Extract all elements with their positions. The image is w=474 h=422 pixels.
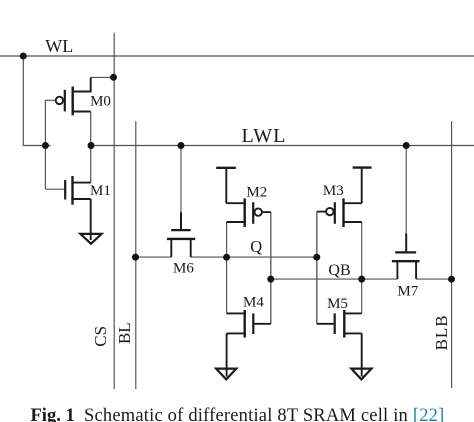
transistor M5 (NMOS) <box>317 310 362 377</box>
svg-text:M6: M6 <box>173 260 194 276</box>
node QB gate tap <box>267 276 274 283</box>
wire M5 drain to QB <box>361 279 363 313</box>
node QB junction <box>358 276 365 283</box>
transistor M4 (NMOS) <box>227 310 271 377</box>
wire WL branch to gates of M0/M1 <box>23 56 50 146</box>
node WL tap <box>20 53 27 60</box>
wire M1 drain up to LWL <box>90 146 92 183</box>
node Q on BL <box>132 254 139 261</box>
svg-text:QB: QB <box>328 262 350 279</box>
transistor M2 (PMOS) <box>216 168 271 227</box>
wire M3 drain to QB <box>361 222 363 279</box>
node M6 gate on LWL <box>178 142 185 149</box>
wire node QB horizontal <box>271 278 452 280</box>
ground below M4 <box>216 369 236 380</box>
transistor M3 (PMOS) <box>317 168 372 227</box>
svg-text:M2: M2 <box>246 184 267 200</box>
wire BL bit line vertical <box>135 121 137 389</box>
node Q gate tap <box>313 254 320 261</box>
wire M6 gate from LWL <box>180 146 182 213</box>
wire LWL horizontal rail <box>91 145 474 147</box>
wire M0 source down to LWL <box>90 112 92 146</box>
wire CS bit line vertical <box>113 33 115 389</box>
transistor M1 (NMOS) <box>65 176 91 240</box>
wire M2 drain to Q <box>226 222 228 257</box>
svg-text:CS: CS <box>91 326 110 347</box>
node M7 gate on LWL <box>403 142 410 149</box>
svg-text:M3: M3 <box>323 183 344 199</box>
svg-text:BL: BL <box>115 322 134 344</box>
svg-text:M0: M0 <box>90 93 111 109</box>
svg-text:M7: M7 <box>397 284 418 300</box>
transistor M7 (NMOS pass, gate on top) <box>392 234 420 280</box>
svg-text:M4: M4 <box>243 295 264 311</box>
node LWL left end <box>88 142 95 149</box>
ground below M5 <box>351 369 371 380</box>
wire M2 gate cross-couple vertical to QB and M4 gate <box>270 212 272 324</box>
wire WL horizontal rail <box>0 55 474 57</box>
wire node Q horizontal <box>136 256 317 258</box>
node gate junction <box>42 142 49 149</box>
transistor M0 (PMOS) <box>56 77 91 115</box>
svg-text:Fig. 1Schematic of differentia: Fig. 1Schematic of differential 8T SRAM … <box>31 406 445 422</box>
wire M3 gate cross-couple vertical to Q and M5 gate <box>316 212 318 324</box>
wire M7 gate from LWL <box>405 146 407 234</box>
svg-text:BLB: BLB <box>432 314 451 350</box>
wire M0 drain to CS <box>91 76 115 78</box>
node Q junction <box>223 254 230 261</box>
svg-text:LWL: LWL <box>242 125 287 147</box>
node M0 drain on CS <box>110 74 117 81</box>
transistor M6 (NMOS pass, gate on top) <box>167 212 195 257</box>
wire BLB bit line vertical <box>451 121 453 388</box>
svg-text:M1: M1 <box>90 183 111 199</box>
svg-text:Q: Q <box>250 237 262 256</box>
svg-text:M5: M5 <box>327 296 348 312</box>
node QB on BLB <box>448 276 455 283</box>
svg-text:WL: WL <box>45 36 73 56</box>
wire gate vertical M0/M1 <box>45 100 65 189</box>
wire M4 drain to Q <box>226 257 228 313</box>
ground below M1 <box>80 234 101 244</box>
